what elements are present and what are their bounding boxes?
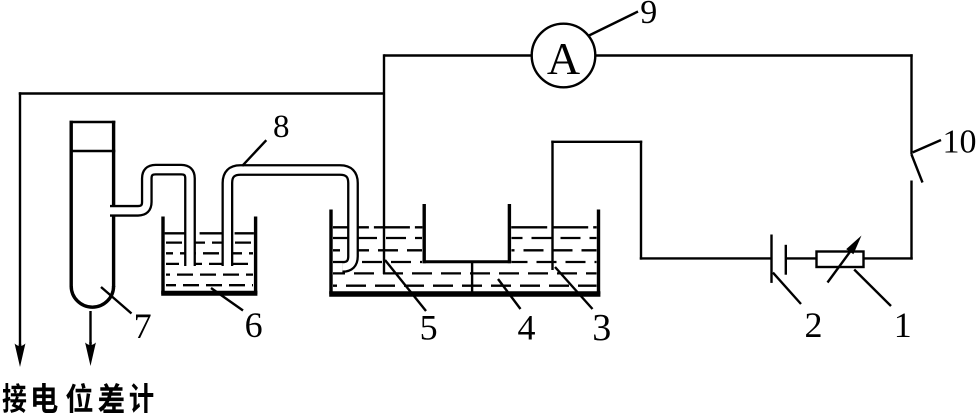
test tube 7 left wall — [69, 121, 72, 287]
wire: battery to riser corner — [640, 257, 771, 259]
switch 10 blade — [912, 155, 923, 183]
pointer to label 1 — [854, 270, 891, 307]
inner bell left wall — [423, 204, 426, 263]
vessel bottom — [329, 291, 600, 297]
vessel liquid hatching — [333, 237, 422, 239]
svg-text:3: 3 — [592, 307, 611, 349]
wire: switch bottom terminal down to bottom-right corner — [910, 181, 912, 260]
svg-text:8: 8 — [273, 109, 290, 145]
ammeter U9 circle — [532, 24, 596, 88]
beaker 6 bottom — [161, 291, 257, 296]
inner bell bottom edge — [422, 260, 511, 263]
wire: ammeter left to corner above cell 5 — [384, 54, 532, 56]
wire: electrode lead down into compartment 5 — [383, 54, 385, 274]
pointer to label 4 — [498, 279, 521, 309]
pointer to label 5 — [385, 260, 426, 311]
pointer to label 2 — [773, 273, 801, 304]
siphon tube 8 from beaker 6 into compartment 5 — [227, 170, 353, 267]
wire: potentiometer branch down left edge — [19, 92, 21, 346]
wire: potentiometer branch horizontal — [19, 92, 384, 94]
wire: right side down to switch — [910, 54, 912, 154]
rheostat R1 arrow — [828, 251, 852, 283]
inner bell right wall — [508, 204, 511, 263]
test tube 7 collar line — [70, 150, 116, 153]
wire: electrode lead down into compartment 3 — [551, 141, 553, 270]
liquid surface compartment 5 — [333, 226, 423, 228]
pointer to label 6 — [211, 288, 243, 311]
pointer to label 9 — [589, 12, 638, 36]
svg-text:7: 7 — [134, 306, 152, 346]
connecting tube from test tube 7 into beaker 6 — [110, 170, 190, 266]
caption 接电位差计 (connect to potentiometer) — [3, 383, 154, 413]
beaker 6 left wall — [161, 217, 164, 295]
svg-text:1: 1 — [894, 305, 912, 345]
rheostat R1 body — [817, 252, 864, 268]
pointer to label 3 — [555, 267, 593, 309]
svg-text:2: 2 — [805, 305, 823, 345]
arrowhead on left potentiometer lead — [15, 344, 26, 368]
pointer to label 10 — [913, 140, 941, 152]
test tube 7 round bottom — [71, 286, 113, 307]
test tube 7 mouth line — [70, 121, 116, 124]
wire: bottom right to rheostat — [864, 257, 913, 259]
arrow below test tube 7 — [89, 311, 91, 344]
svg-text:10: 10 — [943, 124, 976, 161]
svg-text:9: 9 — [640, 0, 657, 31]
test tube 7 right wall — [112, 121, 115, 287]
beaker 6 liquid hatching — [166, 241, 253, 243]
battery cell 2 short plate — [785, 245, 787, 275]
wire: ammeter right to top-right corner — [596, 54, 913, 56]
svg-text:5: 5 — [420, 307, 438, 347]
beaker 6 right wall — [254, 217, 257, 295]
svg-text:4: 4 — [518, 307, 536, 347]
vessel right wall — [597, 210, 600, 295]
lower middle partition (compartment 4) — [471, 262, 473, 294]
pointer to label 7 — [101, 287, 132, 314]
liquid surface compartment 3 — [511, 226, 597, 228]
wire: rheostat to battery — [786, 257, 817, 259]
vessel left wall — [329, 210, 332, 295]
svg-text:6: 6 — [245, 305, 263, 345]
beaker 6 liquid surface — [165, 232, 254, 234]
wire: horizontal over to compartment 3 electrode — [551, 141, 642, 143]
battery cell 2 long plate — [770, 235, 772, 283]
svg-text:A: A — [547, 33, 580, 84]
pointer to label 8 — [242, 140, 266, 166]
wire: riser up at x=641 — [640, 141, 642, 260]
